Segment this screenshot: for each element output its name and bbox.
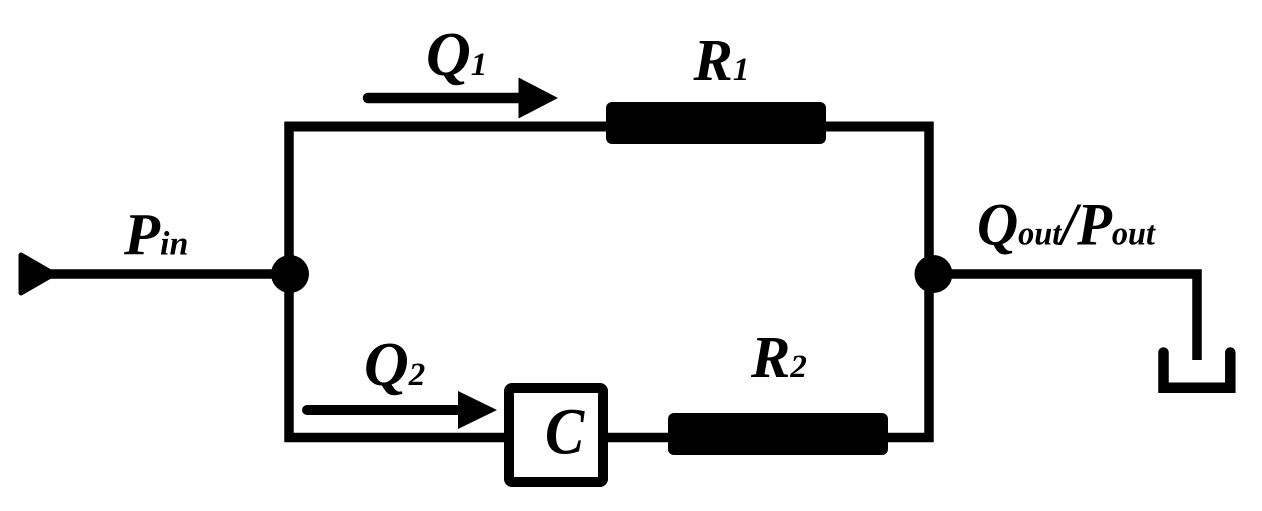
node left junction (271, 255, 309, 293)
input terminal arrowhead (21, 255, 54, 293)
wire bottom branch (285, 433, 934, 443)
wire left vertical branch (284, 122, 294, 442)
svg-text:Qout/Pout: Qout/Pout (977, 191, 1157, 258)
wire input Pin to left node (48, 269, 290, 279)
flow arrow Q1 (368, 78, 558, 119)
wire top branch (285, 122, 934, 132)
svg-text:Q2: Q2 (364, 331, 425, 399)
output reservoir symbol (1164, 353, 1231, 388)
svg-text:C: C (545, 394, 585, 468)
svg-text:Q1: Q1 (426, 21, 487, 89)
wire right vertical branch (924, 122, 934, 442)
svg-text:R1: R1 (693, 27, 750, 93)
resistor R2 (668, 413, 888, 455)
svg-text:Pin: Pin (123, 202, 188, 268)
wire output to reservoir (933, 274, 1197, 360)
capacitor C box (509, 388, 603, 482)
svg-text:R2: R2 (750, 324, 807, 390)
resistor R1 (606, 102, 826, 144)
flow arrow Q2 (307, 391, 497, 429)
node right junction (915, 255, 953, 293)
